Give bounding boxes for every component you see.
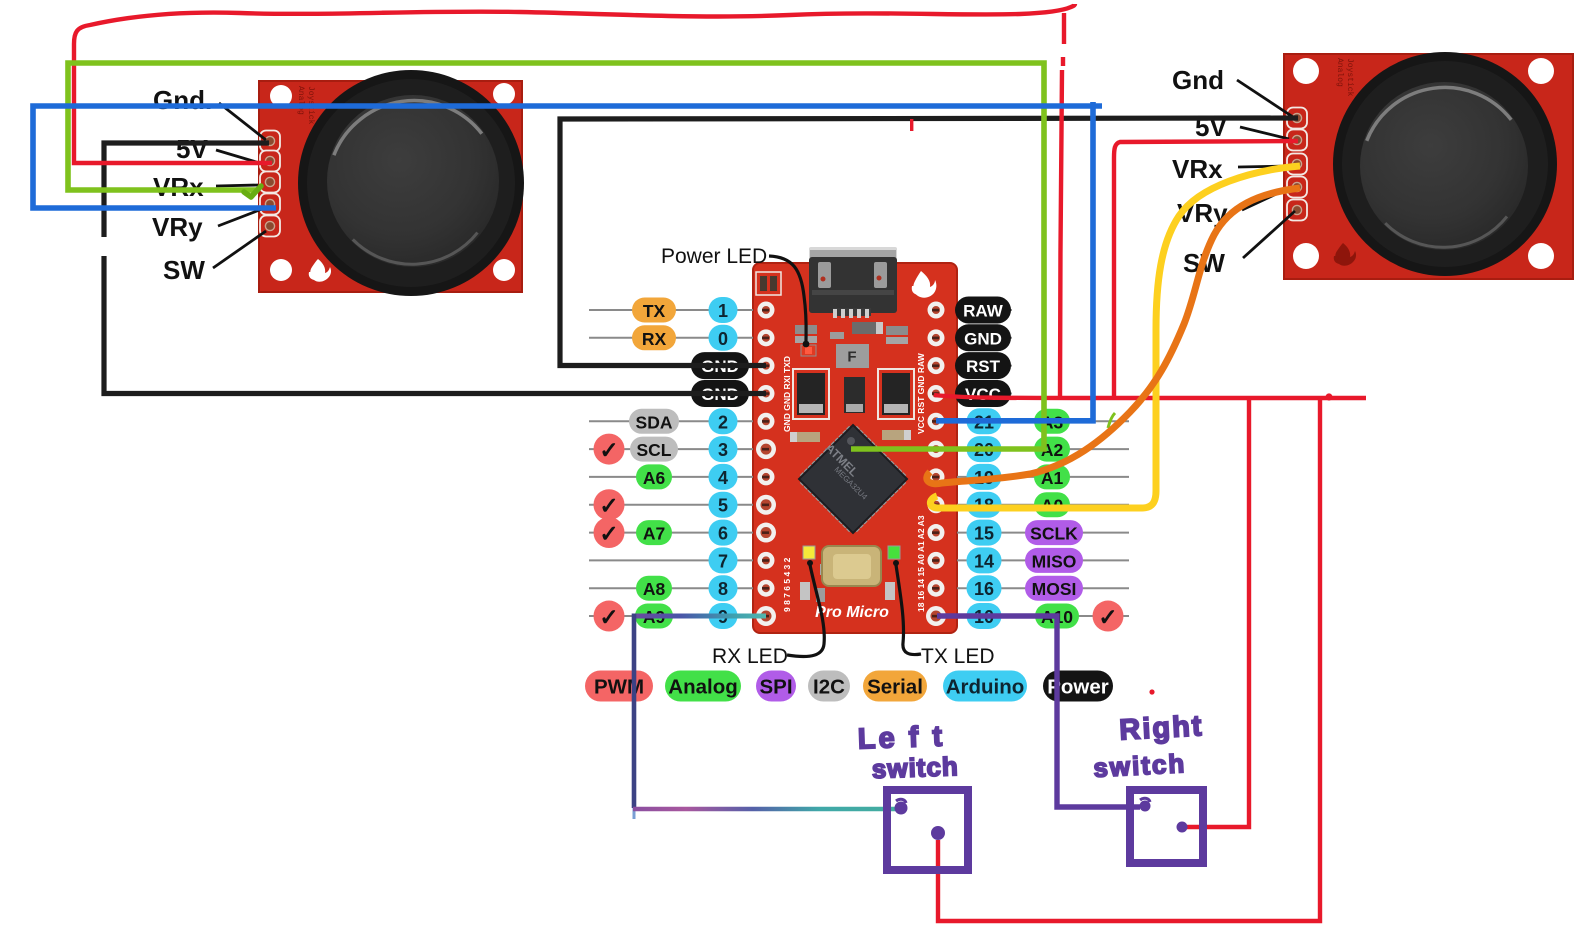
SW2 handwritten label "Right switch" [1091, 710, 1206, 783]
svg-text:Arduino: Arduino [946, 676, 1025, 699]
U1 right pin row 8: 18 A0 [928, 492, 1130, 518]
svg-text:VCC RST GND RAW: VCC RST GND RAW [916, 352, 926, 434]
U1 left pin row 10: 7 [589, 547, 775, 573]
legend bubble Arduino [943, 671, 1027, 702]
crystal resonator Y1 on U1 [822, 546, 881, 586]
svg-text:5V: 5V [176, 134, 208, 164]
right joystick label VRx [1172, 154, 1288, 184]
svg-text:SPI: SPI [759, 676, 792, 699]
svg-text:VRx: VRx [153, 172, 204, 202]
U1 left pin row 2: 0 RX [589, 325, 775, 351]
RX LED label and pointer [712, 560, 824, 668]
U1 right pin row 12: 10 A10 [926, 601, 1129, 632]
svg-text:✓: ✓ [599, 521, 618, 547]
legend bubble Analog [665, 671, 741, 702]
svg-text:Gnd: Gnd [1172, 65, 1224, 95]
svg-text:Gnd.: Gnd. [153, 85, 212, 115]
ATmega32U4 IC on U1 (rotated) [799, 425, 907, 533]
U1 left pin row 6: 3 SCL [589, 434, 776, 465]
left analog joystick module J2 thumbstick cap [298, 70, 524, 296]
svg-text:A6: A6 [643, 468, 666, 488]
green arrow tip at VRx pin [244, 186, 261, 197]
svg-text:5: 5 [718, 496, 728, 516]
svg-text:Serial: Serial [867, 676, 923, 699]
svg-text:4: 4 [718, 468, 728, 488]
SW2 pin terminal right [1177, 822, 1188, 833]
svg-text:0: 0 [718, 329, 728, 349]
svg-text:1: 1 [718, 301, 728, 321]
wire yellow: right joystick VRx to U1 pin 18 A0 [930, 166, 1300, 508]
legend bubble PWM [585, 671, 653, 702]
svg-text:switch: switch [871, 751, 959, 784]
stray green tick right of A3 [1108, 413, 1115, 428]
J1 pads label on U1 [756, 272, 781, 295]
fuse F1 on U1 [836, 344, 869, 368]
U1 right pin row 4: VCC [928, 380, 1013, 407]
U1 right pin row 1: RAW [928, 297, 1013, 324]
stray red mark near top [910, 119, 913, 131]
svg-text:8: 8 [718, 579, 728, 599]
left analog joystick module J2 pin header pads [260, 131, 280, 237]
svg-text:Le f t: Le f t [857, 721, 945, 756]
Power LED label and pointer [661, 245, 809, 347]
wire red: VCC rail from U1 VCC pin [934, 395, 1366, 398]
svg-text:VCC: VCC [965, 385, 1001, 404]
wire red: left joystick 5V loop over top to VCC rail [74, 4, 1075, 398]
U1 right pin row 7: 19 A1 [928, 464, 1130, 490]
right joystick label SW [1183, 211, 1295, 278]
svg-text:Analog: Analog [296, 86, 305, 115]
left switch SW1 box [887, 790, 968, 870]
svg-text:RAW: RAW [963, 302, 1004, 321]
svg-text:✓: ✓ [599, 493, 618, 519]
svg-text:F: F [847, 349, 856, 366]
svg-text:Analog: Analog [668, 676, 737, 699]
RX LED (yellow) on U1 [803, 546, 815, 559]
svg-text:GND GND RXI TXD: GND GND RXI TXD [782, 356, 792, 432]
wire black: left joystick Gnd to U1 GND pin row 4 [104, 143, 766, 394]
U1 right pin row 3: RST [928, 352, 1013, 379]
wire red: right joystick 5V to VCC rail [1114, 141, 1298, 396]
svg-text:TX: TX [643, 301, 666, 321]
svg-text:15: 15 [974, 524, 994, 544]
right joystick label VRy [1177, 188, 1289, 228]
wire blue-purple: vertical segment down to SW1 row [632, 614, 637, 809]
junction dot on VCC rail [1325, 393, 1332, 400]
legend bubble SPI [756, 671, 796, 702]
U1 left pin row 4: GND GND [589, 380, 775, 407]
left joystick label 5V [176, 134, 263, 164]
legend bubble Power [1043, 671, 1113, 702]
svg-text:3: 3 [718, 440, 728, 460]
svg-text:9 8 7 6 5 4 3 2: 9 8 7 6 5 4 3 2 [782, 557, 792, 612]
svg-text:SW: SW [163, 255, 205, 285]
legend bubble I2C [808, 671, 850, 702]
left joystick label VRx [153, 172, 258, 202]
TX LED label and pointer [893, 560, 995, 668]
svg-text:✓: ✓ [599, 437, 618, 463]
left joystick label SW [163, 231, 266, 285]
U1 left pin row 8: 5 [589, 489, 776, 520]
svg-text:RST: RST [966, 357, 1001, 376]
wire multicolor horizontal into left switch SW1 [633, 807, 899, 812]
svg-text:14: 14 [974, 551, 994, 571]
SW1 handwritten label "Left switch" [857, 720, 959, 784]
svg-text:2: 2 [718, 412, 728, 432]
U1 right pin row 2: GND [928, 324, 1013, 351]
right joystick label 5V [1195, 112, 1289, 142]
svg-text:I2C: I2C [813, 676, 845, 699]
svg-text:TX LED: TX LED [921, 645, 995, 668]
wire orange: right joystick VRy to U1 pin 19 A1 [927, 188, 1300, 484]
svg-text:MISO: MISO [1032, 551, 1077, 571]
svg-text:✓: ✓ [1098, 604, 1117, 630]
svg-text:A7: A7 [643, 524, 665, 544]
regulator chips on U1 [793, 369, 914, 419]
svg-text:6: 6 [718, 524, 728, 544]
right analog joystick module J3 pin header pads [1287, 108, 1307, 221]
SW1 pin terminal bottom [931, 826, 945, 840]
wire red: VCC rail branch to right switch SW2 [1186, 397, 1249, 827]
svg-text:16: 16 [974, 579, 994, 599]
svg-text:7: 7 [718, 551, 728, 571]
svg-text:GND: GND [964, 329, 1002, 348]
wire purple: U1 pin 10 A10 to right switch SW2 [937, 616, 1140, 807]
U1 left pin row 5: 2 SDA [589, 408, 775, 434]
left joystick label VRy [152, 209, 262, 242]
legend bubble Serial [863, 671, 927, 702]
USB micro connector on U1 [809, 247, 897, 318]
svg-text:SCLK: SCLK [1030, 524, 1078, 544]
svg-text:PWM: PWM [594, 676, 644, 699]
right switch SW2 box [1130, 790, 1203, 863]
U1 left pin row 3: GND GND [589, 352, 775, 379]
left joystick label Gnd [153, 85, 266, 140]
U1 right pin row 6: 20 A2 [928, 436, 1130, 462]
right joystick label Gnd [1172, 65, 1293, 117]
wire black: right joystick Gnd to U1 GND pin row 3 [560, 118, 1298, 366]
wire blue: left joystick VRy to U1 pin 21 A3 [33, 102, 1102, 421]
svg-text:MOSI: MOSI [1032, 579, 1077, 599]
wire blue-purple: U1 pin 9 A9 horizontal segment [634, 614, 766, 619]
svg-text:RX: RX [642, 329, 667, 349]
SW2 pin terminal top [1140, 798, 1151, 811]
TX LED (green) on U1 [888, 546, 900, 559]
Pro Micro board U1 PCB [753, 263, 957, 633]
stray red dot above right switch [1149, 689, 1154, 694]
right analog joystick module J3 PCB board [1284, 54, 1573, 279]
U1 right pin row 11: 16 MOSI [928, 575, 1130, 601]
svg-text:Analog: Analog [1335, 58, 1344, 87]
svg-text:SDA: SDA [636, 412, 673, 432]
svg-text:RX LED: RX LED [712, 645, 788, 668]
svg-text:Joystick: Joystick [1345, 58, 1354, 97]
right analog joystick module J3 thumbstick cap [1333, 52, 1557, 276]
svg-text:Power LED: Power LED [661, 245, 767, 268]
wire stub overshoot at corner [633, 808, 636, 819]
svg-text:VRx: VRx [1172, 154, 1223, 184]
left analog joystick module J2 PCB board [259, 81, 522, 292]
U1 right pin row 10: 14 MISO [928, 547, 1130, 573]
U1 left pin row 7: 4 A6 [589, 464, 775, 490]
wire green: left joystick VRx to U1 pin 20 A2 [68, 63, 1044, 449]
misc SMD passives on U1 [790, 322, 911, 602]
power LED D1 on U1 [801, 345, 816, 356]
svg-text:Pro Micro: Pro Micro [815, 604, 889, 621]
svg-text:switch: switch [1093, 748, 1187, 783]
svg-text:Right: Right [1119, 710, 1205, 746]
svg-text:VRy: VRy [152, 212, 203, 242]
wire red: VCC rail branch bottom loop to left switch SW1 [938, 398, 1320, 921]
SparkFun flame logo on U1 [912, 271, 937, 298]
U1 right pin row 9: 15 SCLK [928, 520, 1130, 546]
svg-text:✓: ✓ [599, 604, 618, 630]
svg-text:18 16 14 15 A0 A1 A2 A3: 18 16 14 15 A0 A1 A2 A3 [916, 515, 926, 612]
svg-text:SCL: SCL [637, 440, 672, 460]
U1 left pin row 9: 6 A7 [589, 517, 776, 548]
SW1 pin terminal left [895, 799, 908, 814]
U1 left pin row 1: 1 TX [589, 297, 775, 323]
U1 left pin row 12: 9 A9 [589, 601, 776, 632]
U1 left pin row 11: 8 A8 [589, 575, 775, 601]
U1 right pin row 5: 21 A3 [928, 408, 1130, 434]
svg-text:A8: A8 [643, 579, 666, 599]
